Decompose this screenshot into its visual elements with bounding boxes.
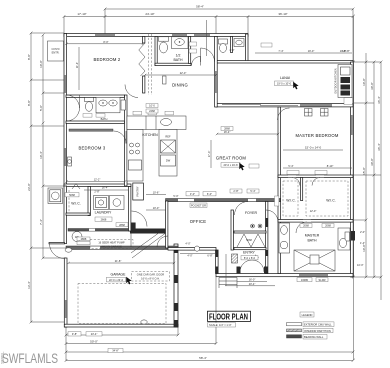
svg-text:2868: 2868 — [81, 237, 87, 241]
svg-text:AHU IN GARAGE: AHU IN GARAGE — [101, 244, 122, 248]
half bath door — [192, 57, 201, 66]
cursors — [239, 163, 244, 171]
svg-text:BATH: BATH — [173, 58, 183, 62]
kitchen island/left run — [127, 130, 143, 182]
lanai to master door — [278, 108, 290, 120]
half bath toilet — [159, 37, 169, 41]
left wall laundry — [64, 186, 67, 244]
svg-text:ONE CAR GAR. DOOR: ONE CAR GAR. DOOR — [137, 273, 165, 277]
svg-text:4'-0": 4'-0" — [187, 254, 192, 258]
wic south wall — [278, 220, 353, 223]
lanai bottom wall — [216, 104, 353, 107]
svg-text:W.I.C.: W.I.C. — [286, 199, 296, 203]
svg-text:SWFLAMLS: SWFLAMLS — [2, 350, 58, 366]
svg-text:20'-0 x 19'-8: 20'-0 x 19'-8 — [223, 163, 238, 167]
svg-text:MASTER: MASTER — [305, 234, 320, 238]
svg-text:10'-4": 10'-4" — [39, 151, 43, 159]
svg-text:16 SEER HEAT PUMP: 16 SEER HEAT PUMP — [98, 241, 125, 245]
office top bearing wall — [166, 199, 281, 202]
office left wall — [166, 201, 168, 248]
svg-text:22'-0 x 23'-0: 22'-0 x 23'-0 — [109, 278, 124, 282]
svg-text:23'-4": 23'-4" — [91, 332, 98, 336]
bath tags — [83, 114, 92, 118]
garage top bearing wall — [66, 246, 178, 250]
svg-text:3'-0": 3'-0" — [190, 192, 195, 196]
svg-text:15'-0": 15'-0" — [362, 167, 366, 175]
dining door jamb — [163, 76, 167, 84]
svg-text:2'-8": 2'-8" — [94, 190, 99, 194]
svg-text:16'-0 x 8'-0 O.H.: 16'-0 x 8'-0 O.H. — [141, 277, 160, 281]
svg-text:7'-4": 7'-4" — [39, 219, 43, 225]
svg-text:15'-0 x 14'-0: 15'-0 x 14'-0 — [305, 146, 322, 150]
pool bath divider — [231, 37, 233, 53]
laundry exterior door — [50, 244, 65, 259]
svg-text:19'-0 x 10'-0: 19'-0 x 10'-0 — [277, 82, 292, 86]
svg-text:8'-10": 8'-10" — [327, 164, 334, 168]
office bottom wall / garage hall — [168, 248, 216, 251]
svg-text:2068: 2068 — [325, 224, 331, 228]
svg-text:REF: REF — [165, 135, 171, 139]
master bath door — [296, 222, 307, 233]
outdoor kitchen — [338, 65, 352, 98]
garage right wall — [174, 244, 178, 327]
covered entrance box — [48, 41, 64, 61]
svg-text:10'-0": 10'-0" — [39, 60, 43, 68]
svg-text:BATH: BATH — [307, 239, 317, 243]
svg-text:BEARING WALL: BEARING WALL — [304, 335, 324, 339]
garage note dashed box — [132, 272, 170, 282]
svg-text:GARAGE: GARAGE — [111, 273, 127, 277]
bedroom2 door — [67, 95, 80, 108]
svg-text:34'-8": 34'-8" — [112, 349, 119, 353]
window bedroom2 top — [95, 34, 115, 36]
foyer east / hall wall — [266, 202, 268, 274]
svg-text:DW: DW — [166, 159, 171, 163]
svg-text:W.I.C.: W.I.C. — [71, 202, 81, 206]
svg-text:2'-8": 2'-8" — [233, 189, 238, 193]
wic divider — [301, 178, 303, 201]
svg-text:10'-0": 10'-0" — [357, 263, 364, 267]
kitchen tags above counter — [133, 111, 142, 115]
entry steps — [219, 277, 237, 279]
svg-text:50'-0": 50'-0" — [90, 339, 98, 343]
svg-text:16080: 16080 — [301, 278, 309, 282]
left wall — [64, 34, 67, 187]
hall door arc — [125, 85, 138, 98]
svg-text:1/2: 1/2 — [176, 54, 181, 58]
svg-text:FLOOR PLAN: FLOOR PLAN — [209, 311, 248, 321]
bath hall walls (between bed2 and bed3) — [66, 95, 125, 97]
closet bifold zigzag bedroom2 — [139, 43, 145, 76]
left ticks — [30, 32, 45, 324]
garage dashed parking — [78, 284, 166, 324]
lanai top wall — [216, 61, 353, 64]
svg-text:ENTRY: ENTRY — [243, 251, 255, 255]
svg-text:COV'D: COV'D — [52, 47, 60, 51]
foyer closet bifold — [237, 234, 265, 247]
svg-text:16'-4": 16'-4" — [102, 186, 109, 190]
foyer closet wall — [234, 248, 266, 250]
garage bottom wall — [64, 324, 178, 327]
svg-text:ENTR.: ENTR. — [52, 51, 60, 55]
svg-text:8'-8": 8'-8" — [27, 100, 31, 106]
svg-text:LANAI: LANAI — [280, 76, 290, 80]
bedroom3 top partition — [69, 129, 113, 131]
svg-text:5'-0": 5'-0" — [173, 194, 178, 198]
lanai slider panels — [222, 104, 261, 106]
foyer arc — [235, 202, 249, 216]
svg-text:LEGEND: LEGEND — [302, 313, 313, 317]
svg-text:11'-4": 11'-4" — [75, 62, 79, 68]
garage left wall — [64, 258, 67, 327]
svg-text:BATH: BATH — [101, 117, 108, 121]
pool bath fixtures — [219, 39, 228, 44]
svg-text:10'-0: 10'-0 — [149, 104, 155, 108]
svg-text:6'-8": 6'-8" — [207, 254, 212, 258]
hall door jamb + arc — [131, 223, 136, 232]
top dim line overall — [105, 8, 353, 10]
svg-text:SCALE: 1/4" = 1'-0": SCALE: 1/4" = 1'-0" — [209, 323, 232, 327]
svg-text:PANTRY: PANTRY — [136, 186, 140, 197]
svg-text:LAUNDRY: LAUNDRY — [95, 211, 112, 215]
house right wall — [351, 62, 354, 277]
master hall door — [266, 210, 278, 222]
svg-text:58'-4": 58'-4" — [199, 356, 207, 360]
svg-text:BEDROOM 2: BEDROOM 2 — [94, 57, 121, 62]
office door circle — [194, 246, 199, 251]
svg-text:5068: 5068 — [246, 238, 252, 242]
svg-text:19'-0": 19'-0" — [308, 49, 315, 53]
svg-text:5'-4": 5'-4" — [288, 164, 293, 168]
laundry door stub — [49, 243, 65, 244]
svg-text:2868: 2868 — [119, 223, 125, 227]
svg-text:INTERIOR PARTITION: INTERIOR PARTITION — [304, 329, 331, 333]
bedroom3 entry door — [114, 131, 127, 144]
svg-text:12'-2": 12'-2" — [94, 177, 101, 181]
kitchen right counter w/ fridge — [159, 130, 177, 177]
svg-text:10'-6": 10'-6" — [153, 190, 160, 194]
svg-text:SWFL: SWFL — [0, 351, 5, 364]
left dim line 1 — [30, 33, 32, 322]
svg-text:4'-6": 4'-6" — [229, 48, 234, 52]
svg-text:OUTDOOR KITCHEN: OUTDOOR KITCHEN — [334, 68, 338, 93]
svg-text:10'-0": 10'-0" — [153, 206, 160, 210]
svg-text:KITCHEN: KITCHEN — [142, 133, 158, 137]
svg-text:16'-0": 16'-0" — [249, 277, 256, 281]
svg-text:5068: 5068 — [69, 193, 75, 197]
svg-text:2868: 2868 — [224, 127, 230, 131]
svg-text:2668: 2668 — [101, 218, 107, 222]
svg-text:5'-0": 5'-0" — [39, 105, 43, 111]
half-bath walls — [155, 37, 157, 66]
closet dashed plumbing wall — [148, 34, 150, 95]
svg-text:30'-0": 30'-0" — [370, 82, 374, 90]
svg-text:9'-8": 9'-8" — [72, 332, 77, 336]
bedroom2 east closet wall — [143, 76, 145, 93]
svg-text:58'-4": 58'-4" — [196, 5, 204, 9]
svg-text:POCKET DR: POCKET DR — [191, 204, 206, 208]
svg-text:OFFICE: OFFICE — [190, 219, 207, 224]
bedroom3 door — [67, 108, 80, 121]
svg-text:FOYER: FOYER — [245, 211, 258, 215]
svg-text:36'-10": 36'-10" — [278, 12, 287, 16]
svg-text:24'-10": 24'-10" — [145, 12, 154, 16]
dining hall door — [201, 48, 215, 62]
top extension lines — [63, 17, 65, 34]
top dim line segments — [64, 16, 353, 18]
entry double doors — [240, 260, 252, 272]
svg-text:2468: 2468 — [149, 109, 155, 113]
dark wall left of office — [130, 229, 166, 234]
entry west wall — [216, 250, 219, 274]
top ticks — [63, 8, 355, 18]
wic shelf dashes — [68, 190, 70, 212]
svg-text:DINING: DINING — [172, 83, 188, 88]
pantry — [133, 183, 144, 200]
svg-text:12'-0": 12'-0" — [310, 209, 317, 213]
svg-text:8'-0 x 8'-0: 8'-0 x 8'-0 — [244, 256, 256, 260]
master bath shower — [294, 250, 335, 271]
entry hatched column — [232, 254, 238, 263]
svg-text:10'-8": 10'-8" — [340, 49, 347, 53]
svg-text:36'-4": 36'-4" — [377, 96, 381, 104]
svg-text:13'-4": 13'-4" — [27, 281, 31, 289]
master wc toilet — [338, 228, 350, 250]
svg-text:5'-4": 5'-4" — [250, 189, 255, 193]
svg-text:4'-0": 4'-0" — [185, 242, 190, 246]
master bath vanity — [279, 223, 290, 253]
wic doors — [292, 178, 300, 186]
svg-text:7'-4": 7'-4" — [278, 49, 283, 53]
linen closet — [121, 100, 126, 110]
pool bath right wall — [246, 34, 249, 62]
shared bath: toilet — [85, 98, 94, 102]
laundry walls — [88, 187, 90, 216]
bottom wall of house right part — [216, 274, 353, 277]
bedroom3 window marker — [68, 157, 72, 166]
svg-text:EXTERIOR CMU WALL: EXTERIOR CMU WALL — [304, 323, 332, 327]
water heater — [72, 232, 82, 242]
office right wall — [231, 210, 233, 250]
laundry washer dryer — [94, 196, 109, 210]
svg-text:GREAT ROOM: GREAT ROOM — [216, 156, 247, 161]
kitchen top counter band — [127, 116, 186, 130]
svg-text:8'-0": 8'-0" — [103, 40, 108, 44]
svg-text:17'-10": 17'-10" — [77, 12, 86, 16]
left extensions — [31, 32, 64, 34]
svg-text:10'-0": 10'-0" — [362, 78, 366, 86]
bottom dim lines — [66, 334, 178, 336]
master suite west wall — [278, 107, 281, 274]
half bath vanity — [172, 37, 189, 49]
wic dashed shelving — [283, 181, 298, 216]
svg-text:8'-8": 8'-8" — [27, 54, 31, 60]
svg-text:W.I.C.: W.I.C. — [326, 199, 336, 203]
entry door jambs — [237, 267, 241, 274]
svg-text:6'-0": 6'-0" — [207, 192, 212, 196]
shared bath: double vanity — [96, 97, 120, 113]
AC unit outside — [48, 188, 63, 204]
entry porch dim lines — [237, 281, 267, 283]
svg-text:10'-0": 10'-0" — [362, 244, 366, 252]
svg-text:23'-0": 23'-0" — [27, 183, 31, 191]
svg-text:2'-0": 2'-0" — [360, 230, 365, 234]
top wall — [64, 34, 248, 37]
svg-text:SLDR: SLDR — [319, 278, 326, 282]
svg-text:1'-4": 1'-4" — [360, 241, 365, 245]
svg-text:17'-4": 17'-4" — [207, 151, 211, 158]
master bedroom south wall — [278, 175, 353, 178]
right dim lines — [353, 16, 355, 360]
bedroom3 bottom wall — [64, 184, 131, 187]
svg-text:21'-8": 21'-8" — [115, 259, 122, 263]
svg-text:36'-4": 36'-4" — [377, 143, 381, 151]
svg-text:BEDROOM 3: BEDROOM 3 — [79, 146, 106, 151]
svg-text:30'-0": 30'-0" — [370, 158, 374, 166]
svg-text:22'-0": 22'-0" — [180, 71, 187, 75]
svg-text:2068: 2068 — [303, 224, 309, 228]
dining/great east wall — [215, 37, 218, 108]
columns under lanai wall — [305, 109, 313, 117]
garage hall door — [157, 236, 168, 247]
svg-text:MASTER BEDROOM: MASTER BEDROOM — [295, 133, 338, 138]
svg-text:20'-4": 20'-4" — [249, 282, 256, 286]
